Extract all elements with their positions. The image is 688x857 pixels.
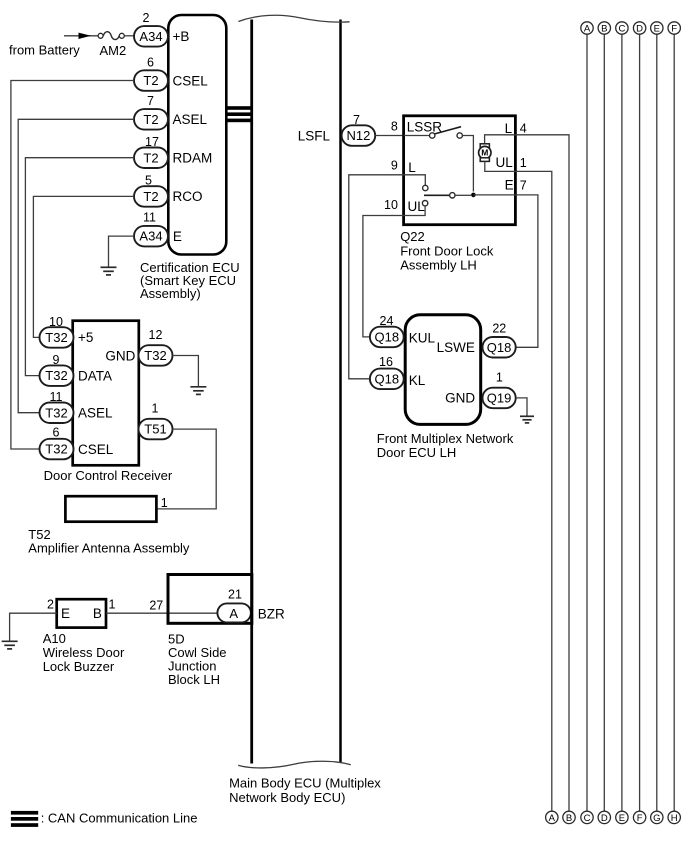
svg-text:A: A (549, 813, 556, 824)
connector Q19 (GND) (483, 388, 516, 409)
svg-text:Wireless Door: Wireless Door (43, 645, 125, 660)
pin 11 (50, 390, 63, 404)
svg-text:16: 16 (379, 355, 393, 369)
wire column F-H (673, 34, 675, 811)
wire column A-C (586, 34, 588, 811)
pin name L (right) (505, 121, 513, 136)
svg-text:LSSR: LSSR (407, 119, 443, 134)
pin name GND (445, 390, 475, 405)
pin 7 (147, 94, 154, 108)
main body ECU bottom break line (238, 761, 351, 768)
pin 7 (520, 178, 527, 192)
pin 12 (149, 328, 163, 342)
pin 9 (53, 353, 60, 367)
CAN communication line (certification ECU to main body ECU) (226, 106, 253, 122)
wire motor to UL row (485, 161, 516, 171)
junction node (471, 193, 476, 198)
pin name LSFL (298, 129, 331, 144)
pin name B (93, 606, 102, 621)
svg-text:UL: UL (408, 199, 426, 214)
pin name E (173, 229, 182, 244)
pin name E (right) (505, 177, 514, 192)
svg-text:from Battery: from Battery (9, 43, 80, 58)
wire AM2 to A34 (124, 35, 135, 37)
node E (top) (651, 22, 663, 35)
svg-text:LSFL: LSFL (298, 129, 331, 144)
wire pin 8 stub (404, 135, 430, 137)
svg-text:N12: N12 (346, 128, 370, 143)
svg-text:6: 6 (53, 426, 60, 440)
svg-text:4: 4 (520, 121, 527, 135)
pin 2 (143, 11, 150, 25)
certification ECU label (140, 260, 240, 301)
switch lock contact UL (422, 201, 427, 206)
pin name +B (173, 29, 190, 44)
svg-text:E: E (505, 177, 514, 192)
svg-text:27: 27 (149, 599, 163, 613)
connector A34 (E) (134, 226, 168, 247)
svg-text:Block LH: Block LH (168, 672, 220, 687)
pin name UL (left) (408, 199, 426, 214)
svg-text:Front Multiplex Network: Front Multiplex Network (377, 431, 514, 446)
connector T2 (CSEL) (134, 70, 168, 91)
wire column B-D (603, 34, 605, 811)
pin 27 (149, 599, 163, 613)
svg-text:F: F (671, 23, 677, 34)
pin name CSEL (173, 73, 209, 88)
connector T32 (CSEL) (40, 439, 74, 460)
svg-text:21: 21 (228, 588, 242, 602)
certification ECU box (168, 15, 226, 255)
pin name GND (105, 348, 135, 363)
svg-text:H: H (671, 813, 678, 824)
wire CSEL to door control receiver CSEL (11, 81, 134, 450)
pin name CSEL (78, 442, 114, 457)
svg-text:Assembly): Assembly) (140, 286, 201, 301)
connector Q18 (KUL) (370, 327, 404, 348)
connector T2 (RCO) (134, 186, 168, 207)
svg-text:11: 11 (143, 211, 156, 225)
pin 1 (520, 156, 527, 170)
svg-text:T32: T32 (45, 368, 67, 383)
pin 24 (380, 314, 394, 328)
svg-text:1: 1 (520, 156, 527, 170)
svg-text:T32: T32 (45, 330, 67, 345)
svg-text:Door Control Receiver: Door Control Receiver (44, 468, 173, 483)
pin 10 (49, 315, 63, 329)
pin 10 (384, 198, 398, 212)
pin name LSWE (437, 340, 475, 355)
Q22 label (400, 229, 494, 272)
svg-text:Q18: Q18 (375, 371, 400, 386)
node B (bottom) (563, 811, 575, 824)
wire Q19 to ground (516, 398, 527, 416)
pin 2 (47, 598, 54, 612)
svg-text:M: M (481, 148, 488, 158)
wire pin 9 to switch contact (404, 175, 426, 185)
pin 11 (143, 211, 156, 225)
pin name L (left) (408, 160, 416, 175)
svg-text:GND: GND (445, 390, 475, 405)
switch LSSR contact b (457, 133, 462, 138)
main body ECU left edge (250, 20, 253, 764)
pin name RCO (173, 189, 203, 204)
motor M brush bottom (480, 158, 489, 162)
connector T2 (RDAM) (134, 148, 168, 169)
svg-text:Main Body ECU (Multiplex: Main Body ECU (Multiplex (229, 776, 381, 791)
svg-text:9: 9 (391, 158, 398, 172)
front multiplex network door ECU box (405, 315, 481, 425)
svg-text:E: E (619, 813, 625, 824)
svg-text:Door ECU LH: Door ECU LH (377, 445, 456, 460)
node from Battery label (9, 43, 80, 58)
wire Q22 pin 9 to KL (349, 175, 404, 379)
CAN communication line legend symbol (11, 811, 38, 827)
svg-text:Q18: Q18 (375, 330, 400, 345)
svg-text:Network Body ECU): Network Body ECU) (229, 790, 345, 805)
amplifier antenna assembly label (28, 527, 190, 556)
svg-text:C: C (584, 813, 591, 824)
pin name +5 (78, 330, 93, 345)
motor M (479, 146, 491, 158)
pin 6 (53, 426, 60, 440)
svg-text:CSEL: CSEL (173, 73, 209, 88)
wire RDAM to door control receiver DATA (25, 158, 134, 376)
switch lock common contact (450, 193, 455, 198)
svg-text:+B: +B (173, 29, 190, 44)
connector T2 (ASEL) (134, 109, 168, 130)
svg-text:7: 7 (147, 94, 154, 108)
pin name RDAM (173, 151, 213, 166)
pin name UL (right) (496, 155, 514, 170)
pin 5 (145, 174, 152, 188)
svg-text:7: 7 (520, 178, 527, 192)
front multiplex network door ECU label (377, 431, 514, 460)
pin 4 (520, 121, 527, 135)
wire Q22 pin 7 to LSWE (515, 195, 538, 347)
svg-text:+5: +5 (78, 330, 93, 345)
ground (door ECU GND) (520, 416, 534, 423)
pin name KL (409, 373, 426, 388)
ground (certification ECU E) (101, 267, 117, 275)
svg-text:Front Door Lock: Front Door Lock (400, 243, 494, 258)
pin 7 (353, 113, 360, 127)
wire pin 10 to switch contact (404, 206, 426, 216)
svg-text:22: 22 (492, 321, 506, 335)
svg-text:F: F (637, 813, 643, 824)
svg-text:1: 1 (152, 401, 159, 415)
cowl side junction block 5D box (168, 575, 252, 624)
amplifier antenna assembly T52 box (65, 496, 156, 522)
ground (buzzer) (2, 641, 18, 649)
pin name DATA (78, 368, 112, 383)
pin 22 (492, 321, 506, 335)
svg-text:Q19: Q19 (487, 391, 512, 406)
svg-text:L: L (505, 121, 513, 136)
svg-text:Assembly LH: Assembly LH (400, 258, 477, 273)
main body ECU top break line (238, 15, 349, 22)
connector N12 (LSFL) (342, 125, 376, 146)
svg-text:1: 1 (109, 598, 116, 612)
node D (top) (633, 22, 645, 35)
svg-text:1: 1 (496, 371, 503, 385)
wire Q22 pin 4 to connector B (515, 135, 569, 812)
connector A (junction block) (217, 603, 251, 622)
svg-text:T2: T2 (143, 150, 158, 165)
wire GND to ground (173, 356, 199, 387)
battery arrow (79, 33, 92, 39)
pin name LSSR (407, 119, 443, 134)
svg-text:Q18: Q18 (487, 340, 512, 355)
svg-text:B: B (93, 606, 102, 621)
svg-text:Lock Buzzer: Lock Buzzer (43, 659, 115, 674)
wire ASEL to door control receiver ASEL (18, 119, 134, 412)
pin 1 label (amplifier antenna) (161, 496, 168, 510)
node C (bottom) (581, 811, 593, 824)
svg-text:Q22: Q22 (400, 229, 425, 244)
wireless door lock buzzer A10 box (57, 599, 106, 627)
wire buzzer E to ground (10, 613, 57, 640)
pin name E (61, 606, 70, 621)
svg-text:L: L (408, 160, 416, 175)
connector T51 (pin 1) (139, 419, 173, 440)
pin name KUL (409, 330, 436, 345)
svg-text:1: 1 (161, 496, 168, 510)
svg-text:BZR: BZR (258, 607, 285, 622)
node E (bottom) (616, 811, 628, 824)
fuse AM2 (98, 32, 126, 58)
pin 16 (379, 355, 393, 369)
wire T51 to amplifier antenna (156, 429, 216, 509)
connector Q18 (LSWE) (483, 337, 516, 358)
node D (bottom) (598, 811, 610, 824)
svg-text:A10: A10 (43, 631, 66, 646)
wire L row to motor (485, 135, 516, 144)
pin 21 (228, 588, 242, 602)
svg-text:T2: T2 (143, 73, 158, 88)
ground (door control receiver GND) (190, 387, 206, 395)
buzzer label (43, 631, 125, 674)
svg-text:A34: A34 (139, 229, 162, 244)
wire column E-G (656, 34, 658, 811)
svg-text:E: E (173, 229, 182, 244)
switch LSSR blade (435, 127, 461, 134)
svg-text:T51: T51 (144, 422, 166, 437)
node F (top) (668, 22, 680, 35)
svg-text:CSEL: CSEL (78, 442, 114, 457)
svg-text:8: 8 (391, 120, 398, 134)
node A (bottom) (546, 811, 558, 824)
svg-text:B: B (601, 23, 607, 34)
svg-text:Amplifier Antenna Assembly: Amplifier Antenna Assembly (28, 541, 190, 556)
svg-text:12: 12 (149, 328, 163, 342)
svg-text:LSWE: LSWE (437, 340, 475, 355)
svg-text:GND: GND (105, 348, 135, 363)
svg-text:AM2: AM2 (100, 43, 127, 58)
wire column C-E (621, 34, 623, 811)
switch lock blade (424, 194, 449, 196)
svg-text:KUL: KUL (409, 330, 436, 345)
pin 1 (152, 401, 159, 415)
svg-text:D: D (601, 813, 608, 824)
connector T32 (DATA) (40, 365, 74, 386)
svg-text:D: D (636, 23, 643, 34)
wire junction to E pin (473, 194, 515, 196)
svg-text:2: 2 (47, 598, 54, 612)
svg-text:T2: T2 (143, 189, 158, 204)
svg-text:A: A (584, 23, 591, 34)
node G (bottom) (651, 811, 663, 824)
svg-text:10: 10 (384, 198, 398, 212)
svg-text:B: B (566, 813, 572, 824)
svg-text:T32: T32 (45, 442, 67, 457)
connector Q18 (KL) (370, 369, 404, 390)
svg-text:UL: UL (496, 155, 514, 170)
wire Q22 pin 10 to KUL (363, 216, 404, 337)
wire switch to junction (463, 136, 474, 192)
pin name ASEL (78, 406, 113, 421)
wire N12 to Q22 pin 8 (375, 135, 403, 137)
svg-text:G: G (653, 813, 660, 824)
svg-text:C: C (618, 23, 625, 34)
connector T32 (GND) (139, 345, 173, 366)
pin 9 (391, 158, 398, 172)
wire battery feed (64, 35, 99, 37)
wire common to junction (455, 194, 471, 196)
svg-text:T32: T32 (45, 405, 67, 420)
switch LSSR contact a (430, 133, 435, 138)
pin 1 (496, 371, 503, 385)
door control receiver label (44, 468, 173, 483)
junction block label (168, 632, 227, 688)
node C (top) (616, 22, 628, 35)
svg-text:ASEL: ASEL (173, 112, 208, 127)
wire Q22 pin 1 to connector A (515, 171, 551, 811)
pin name BZR (258, 607, 285, 622)
wire buzzer B to junction block (106, 612, 218, 614)
svg-text:T32: T32 (144, 348, 166, 363)
svg-text:E: E (654, 23, 660, 34)
svg-text:: CAN Communication Line: : CAN Communication Line (41, 811, 198, 826)
main body ECU right edge (339, 20, 342, 763)
svg-text:A34: A34 (139, 29, 162, 44)
wire RCO to door control receiver +5 (33, 196, 134, 337)
switch lock contact L (423, 185, 428, 190)
node A (top) (581, 22, 593, 35)
door control receiver box (73, 321, 139, 466)
svg-text:T2: T2 (143, 112, 158, 127)
pin 17 (145, 135, 159, 149)
connector A34 (+B) (134, 26, 168, 46)
wire E to ground (109, 236, 135, 266)
connector T32 (ASEL) (40, 403, 74, 424)
svg-text:A: A (229, 606, 238, 621)
pin name ASEL (173, 112, 208, 127)
svg-text:6: 6 (147, 56, 154, 70)
svg-text:E: E (61, 606, 70, 621)
pin 8 (391, 120, 398, 134)
motor M brush top (480, 144, 489, 148)
wire column D-F (639, 34, 641, 811)
CAN communication line legend text (41, 811, 198, 826)
node F (bottom) (633, 811, 645, 824)
pin 1 (109, 598, 116, 612)
node H (bottom) (668, 811, 680, 824)
node B (top) (598, 22, 610, 35)
svg-text:KL: KL (409, 373, 426, 388)
svg-text:DATA: DATA (78, 368, 112, 383)
svg-text:ASEL: ASEL (78, 406, 113, 421)
svg-text:RDAM: RDAM (173, 151, 213, 166)
front door lock assembly Q22 box (404, 116, 516, 225)
svg-text:RCO: RCO (173, 189, 203, 204)
pin 6 (147, 56, 154, 70)
svg-text:2: 2 (143, 11, 150, 25)
main body ECU label (229, 776, 381, 806)
connector T32 (+5) (40, 327, 74, 348)
